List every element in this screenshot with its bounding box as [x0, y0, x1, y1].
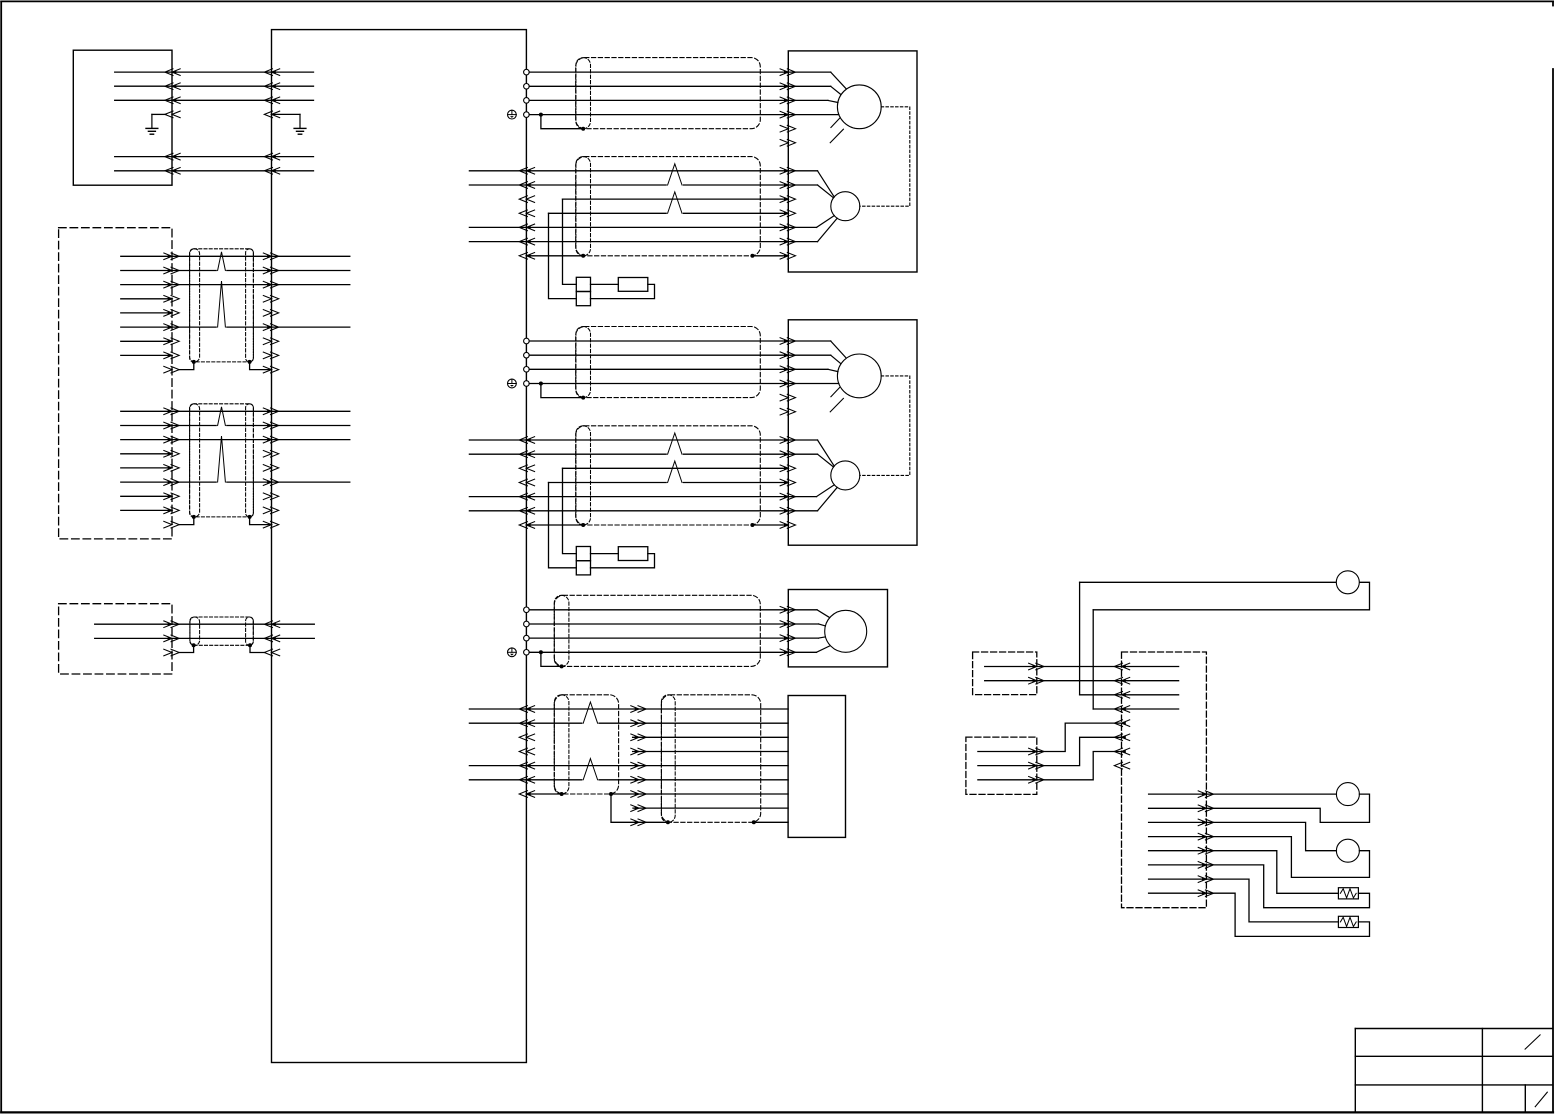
pulse shield drain	[164, 643, 280, 656]
I/O cable wires	[526, 709, 788, 780]
box C wires	[978, 723, 1122, 780]
encoder wires inside drive axis 2	[469, 440, 526, 511]
PE shield junction axis 1	[539, 113, 585, 131]
shield drain group 1	[164, 360, 279, 373]
I/O shield wire A	[526, 792, 788, 796]
protective earth symbol axis 2	[508, 379, 517, 388]
inline connector arrows I/O	[631, 706, 646, 826]
motor power cable shield axis 2	[576, 327, 761, 398]
box A connector arrows	[1029, 663, 1044, 684]
terminal block box	[788, 696, 845, 838]
brake coil circle K2	[1336, 839, 1359, 862]
I/O row 8 wire	[633, 807, 788, 809]
drive encoder connector arrows axis 2	[519, 437, 534, 529]
twisted pair symbols encoder axis 2	[668, 433, 682, 483]
twisted pair symbols I/O	[583, 702, 597, 780]
twisted pair symbol group 1 pair A	[218, 252, 226, 271]
shield stub right	[272, 113, 301, 115]
pulse command wires	[95, 624, 315, 638]
drive connector pins axis 3	[524, 607, 530, 655]
encoder shield wire axis 2	[526, 523, 788, 527]
motor unit box axis 1	[788, 51, 917, 272]
motor encoder connector arrows axis 2	[780, 437, 795, 529]
power supply dashed box A	[973, 652, 1037, 695]
motor shaft marks axis 2	[830, 388, 843, 412]
battery axis 1	[591, 278, 655, 299]
brake wires inside box B	[1149, 794, 1207, 893]
encoder shield wire axis 1	[526, 254, 788, 258]
relay feed wires	[1080, 695, 1179, 709]
brake circuit 1 wiring	[1206, 794, 1369, 822]
motor unit box axis 2	[788, 320, 917, 545]
ground symbol left	[146, 114, 158, 134]
encoder wires inside drive axis 1	[469, 171, 526, 242]
connector arrows group 1	[164, 253, 279, 359]
motor circle axis 3	[825, 610, 867, 652]
input signal wires group 2	[121, 411, 350, 510]
motor encoder connector arrows axis 1	[780, 168, 795, 260]
motor power cable shield axis 1	[576, 58, 761, 129]
drive encoder connector arrows axis 1	[519, 168, 534, 260]
host controller box	[73, 50, 172, 185]
battery connector axis 2	[576, 547, 590, 575]
drive connector pins axis 1	[524, 69, 530, 117]
pulse connector arrows	[164, 621, 280, 642]
connector arrows host bus	[165, 69, 280, 174]
shield drain group 2	[164, 515, 279, 528]
battery connector axis 1	[576, 277, 590, 305]
title block slash 1	[1525, 1035, 1540, 1049]
motor power wires U V W PE axis 1	[529, 72, 846, 115]
pulse cable shield outline	[190, 617, 253, 645]
I/O signal source dashed box	[59, 228, 172, 539]
motor connector arrows axis 2	[780, 338, 795, 415]
drive I/O connector arrows	[519, 706, 534, 798]
encoder cable wires axis 1	[526, 171, 837, 242]
I/O cable shield B	[661, 695, 760, 823]
connector arrow shield left	[165, 111, 180, 118]
I/O wires inside drive	[469, 709, 526, 780]
I/O shield wire B	[611, 794, 788, 824]
PE shield junction axis 3	[539, 650, 564, 668]
input signal wires group 1	[121, 256, 350, 355]
battery axis 2	[591, 547, 655, 568]
box C connector arrows	[1029, 748, 1044, 783]
I/O cable shield A	[554, 695, 618, 794]
protective earth symbol axis 1	[508, 110, 517, 119]
shield stub left	[152, 113, 166, 115]
connector arrows group 2	[164, 408, 279, 514]
battery vertical taps axis 1	[549, 199, 577, 299]
connector arrow shield right	[264, 111, 279, 118]
motor circle axis 1	[837, 85, 881, 129]
encoder circle axis 1	[831, 192, 860, 221]
resistor circuit 2 wiring	[1206, 879, 1369, 936]
twisted pair symbols encoder axis 1	[668, 164, 682, 214]
title block slash 2	[1535, 1092, 1547, 1107]
motor power cable shield axis 3	[554, 595, 760, 666]
relay K0 wiring	[1080, 582, 1370, 709]
PE shield junction axis 2	[539, 382, 585, 400]
box A wires	[985, 667, 1179, 681]
title block	[1355, 1029, 1553, 1113]
motor power wires U V W PE axis 3	[529, 610, 829, 653]
resistor circuit 1 wiring	[1206, 851, 1369, 908]
brake relay dashed box B	[1122, 652, 1207, 908]
resistor R2	[1338, 916, 1358, 927]
encoder circle axis 2	[831, 461, 860, 490]
motor circle axis 2	[837, 354, 881, 398]
motor connector arrows axis 1	[780, 69, 795, 146]
twisted pair symbol group 2 pair A	[218, 407, 226, 426]
cable shield outline group 2	[190, 404, 254, 517]
motor shaft marks axis 1	[830, 118, 843, 142]
ground symbol right	[294, 114, 306, 134]
encoder cable shield axis 1	[576, 157, 761, 256]
twisted quad symbol group 1	[218, 281, 226, 327]
box B right connector arrows	[1198, 791, 1213, 897]
motor connector arrows axis 3	[780, 607, 795, 656]
servo drive unit box	[272, 30, 527, 1063]
battery vertical taps axis 2	[549, 468, 577, 568]
twisted quad symbol group 2	[218, 436, 226, 482]
pulse command source dashed box	[59, 604, 172, 674]
motor encoder link axis 1	[860, 107, 910, 206]
motor power wires U V W PE axis 2	[529, 341, 846, 384]
brake circuit 2 wiring	[1206, 822, 1369, 877]
brake coil circle K1	[1336, 783, 1359, 806]
control signal dashed box C	[966, 737, 1037, 794]
drive connector pins axis 2	[524, 338, 530, 386]
bus wires host to drive	[115, 72, 314, 171]
resistor R1	[1338, 888, 1358, 899]
encoder cable shield axis 2	[576, 426, 761, 525]
cable shield outline group 1	[190, 249, 254, 362]
motor encoder link axis 2	[860, 376, 910, 476]
protective earth symbol axis 3	[508, 648, 517, 657]
motor unit box axis 3	[788, 590, 887, 667]
relay coil circle K0	[1336, 571, 1359, 594]
encoder cable wires axis 2	[526, 440, 837, 511]
box B left connector arrows	[1114, 663, 1129, 769]
